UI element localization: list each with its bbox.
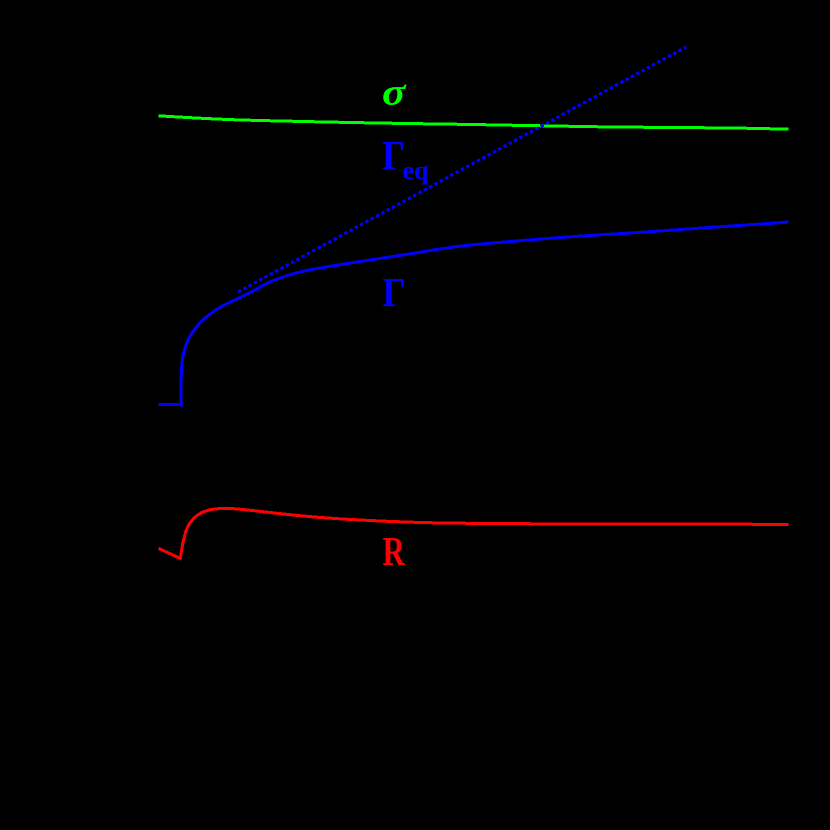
svg-text:σ: σ: [382, 72, 407, 114]
svg-text:eq: eq: [403, 155, 429, 185]
svg-text:R: R: [383, 528, 406, 574]
curve Gamma_eq (blue dotted line): [238, 47, 686, 292]
curve sigma (green surface tension line): [159, 116, 789, 129]
curve Gamma (blue solid adsorption curve): [159, 222, 789, 405]
svg-text:Γ: Γ: [383, 269, 406, 315]
curve R (red radius curve): [159, 508, 789, 558]
